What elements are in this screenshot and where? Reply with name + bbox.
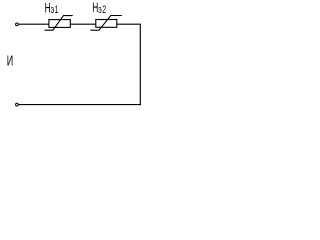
nonlinear element НЭ2 body <box>96 20 117 28</box>
svg-text:Нэ1: Нэ1 <box>45 1 59 15</box>
wire <box>117 23 141 25</box>
wire (right vertical) <box>139 24 141 106</box>
nonlinear element НЭ2 characteristic stroke <box>91 16 122 31</box>
wire <box>19 23 49 25</box>
svg-text:И: И <box>7 52 13 69</box>
nonlinear element НЭ1 body <box>49 20 70 28</box>
svg-text:Нэ2: Нэ2 <box>92 1 106 15</box>
wire (bottom) <box>19 104 141 106</box>
terminal (bottom left) <box>16 103 19 106</box>
terminal (top left) <box>16 23 19 26</box>
nonlinear element НЭ1 characteristic stroke <box>45 16 73 31</box>
wire <box>70 23 96 25</box>
